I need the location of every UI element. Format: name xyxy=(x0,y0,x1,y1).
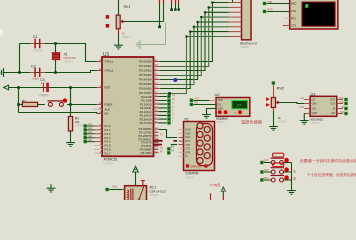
wire RP1 common drop xyxy=(232,0,234,3)
node junction X1 top xyxy=(54,42,57,45)
svg-text:加: 加 xyxy=(293,170,296,174)
svg-text:CLK: CLK xyxy=(339,101,344,104)
svg-text:DS18B20: DS18B20 xyxy=(216,116,228,120)
svg-text:LE1: LE1 xyxy=(88,123,93,126)
svg-text:DO: DO xyxy=(340,111,344,114)
push button K3 xyxy=(271,175,289,182)
svg-text:XTAL1: XTAL1 xyxy=(105,60,114,64)
svg-text:RX: RX xyxy=(171,146,175,149)
svg-text:<TEXT>: <TEXT> xyxy=(216,120,226,124)
svg-text:<TEXT>: <TEXT> xyxy=(104,162,115,166)
net labels P2 xyxy=(172,94,175,123)
wire P0.5 xyxy=(160,27,229,85)
DB9 shape xyxy=(197,124,213,166)
svg-text:U1: U1 xyxy=(103,52,110,58)
red pin bottom xyxy=(210,193,212,200)
pale ground wire xyxy=(144,23,166,45)
mcu U1 left pin stubs xyxy=(94,62,102,142)
terminal P1.2 xyxy=(84,132,87,135)
svg-text:RXD: RXD xyxy=(185,136,190,139)
svg-text:CTS: CTS xyxy=(291,25,296,28)
terminal K2 xyxy=(260,170,263,173)
wire U2 VDD xyxy=(193,100,209,102)
net labels U3 left xyxy=(299,97,304,109)
wire U2 DQ xyxy=(193,104,216,106)
terminal U3 DO xyxy=(344,112,347,115)
terminal U2 DQ xyxy=(190,103,193,106)
terminal U3 VCC xyxy=(344,98,347,101)
ground buttons xyxy=(287,187,296,195)
wire vertical x71 / resistor R1 xyxy=(70,88,72,117)
terminal P2.2 xyxy=(167,102,170,105)
svg-text:RI: RI xyxy=(185,155,188,158)
wire EA row xyxy=(19,113,97,114)
terminal K3 xyxy=(260,178,263,181)
U2 buttons xyxy=(218,110,222,114)
svg-text:XTAL2: XTAL2 xyxy=(105,69,114,73)
wire P3.0 to RXD xyxy=(159,130,178,138)
wire vertical B xyxy=(163,0,165,22)
svg-text:COMPIM: COMPIM xyxy=(185,172,198,176)
isolated ground xyxy=(47,184,56,192)
wire VT TXD xyxy=(267,11,290,13)
svg-text:VCC: VCC xyxy=(339,97,344,100)
svg-text:10k: 10k xyxy=(75,120,80,124)
svg-text:ADC0832: ADC0832 xyxy=(310,117,323,121)
terminal P2.4 xyxy=(167,110,170,113)
wire RV2 bottom xyxy=(273,108,275,123)
wire RV2 top xyxy=(273,85,275,97)
mcu U1 body xyxy=(102,52,154,166)
wire U2 GND xyxy=(207,109,217,111)
push button reset xyxy=(48,98,68,106)
crystal X1 xyxy=(52,44,77,73)
stub VT RTS xyxy=(284,17,290,19)
svg-text:1k: 1k xyxy=(278,116,282,120)
svg-text:RXD: RXD xyxy=(268,8,273,11)
wire U3 GND xyxy=(303,113,305,116)
svg-text:GND: GND xyxy=(312,112,318,115)
capacitor C3 xyxy=(39,78,50,97)
svg-text:LE4: LE4 xyxy=(88,135,93,138)
wire K2 xyxy=(264,171,292,173)
pot RV1 xyxy=(106,5,132,39)
svg-text:CH1: CH1 xyxy=(299,106,304,109)
terminal P2.1 xyxy=(167,99,170,102)
svg-text:设置键(一分钟内无操作自动退出设置界面): 设置键(一分钟内无操作自动退出设置界面) xyxy=(300,158,356,163)
wire P0.7 xyxy=(160,37,229,94)
terminal P1.0 xyxy=(84,124,87,127)
wire selected bold red xyxy=(154,140,178,142)
net labels P1 xyxy=(88,123,93,142)
svg-text:+: + xyxy=(41,82,43,86)
svg-text:27: 27 xyxy=(237,103,241,108)
push button K2 xyxy=(271,163,289,174)
svg-text:TXD: TXD xyxy=(185,144,190,147)
svg-text:<TEXT>: <TEXT> xyxy=(75,124,85,128)
svg-text:RV2: RV2 xyxy=(277,87,284,91)
svg-text:RESPACK-8: RESPACK-8 xyxy=(240,41,257,45)
wire P0.4 xyxy=(160,22,229,80)
svg-text:DEC: DEC xyxy=(264,177,269,180)
svg-text:CH0: CH0 xyxy=(312,103,318,106)
svg-text:P1.7: P1.7 xyxy=(105,151,111,155)
wire RV1 bottom to ground xyxy=(118,29,120,34)
ground below RV1 xyxy=(114,41,123,49)
wire buttons bus xyxy=(291,163,293,187)
svg-text:DTR: DTR xyxy=(185,151,190,154)
node junction RST/vert18 xyxy=(17,86,20,89)
LCD display xyxy=(232,101,248,109)
node junction X1 bottom xyxy=(54,71,57,74)
terminal P1.4 xyxy=(84,140,87,143)
wire P0.0 xyxy=(160,3,229,62)
terminal RXD xyxy=(263,10,266,13)
resistor R2 xyxy=(22,94,50,107)
svg-text:<TEXT>: <TEXT> xyxy=(122,35,132,39)
svg-text:RXD: RXD xyxy=(291,3,296,6)
node P0.7 mark xyxy=(168,92,171,95)
svg-text:EA: EA xyxy=(105,112,109,116)
resistor pack RP1 xyxy=(229,0,258,49)
wire PSEN row xyxy=(19,104,97,106)
terminal spare xyxy=(167,151,170,154)
net labels U3 right xyxy=(339,97,344,114)
terminal U3 CLK xyxy=(344,102,347,105)
wires P2 rows xyxy=(159,97,167,123)
svg-text:DO: DO xyxy=(332,112,336,115)
terminal RV2 top xyxy=(272,81,275,84)
terminal TXD xyxy=(263,2,266,5)
svg-text:P2.7/A15: P2.7/A15 xyxy=(140,121,152,125)
svg-text:RTS: RTS xyxy=(291,17,296,20)
mcu U1 right pin stubs xyxy=(154,62,161,153)
node junction C2 row xyxy=(18,71,21,74)
svg-text:<TEXT>: <TEXT> xyxy=(150,193,160,197)
svg-text:CTS: CTS xyxy=(185,148,190,151)
wire XTAL2/gnd row xyxy=(7,71,97,73)
wire P0.1 xyxy=(160,7,229,66)
wire RV2 wiper to U3 xyxy=(280,103,305,104)
svg-text:DQ: DQ xyxy=(218,103,222,106)
wire vertical C (dot end) xyxy=(171,0,173,10)
svg-text:<TEXT>: <TEXT> xyxy=(278,119,288,123)
COMPIM P1 xyxy=(179,117,227,179)
svg-text:P0.0/AD0: P0.0/AD0 xyxy=(139,60,152,64)
svg-text:<TEXT>: <TEXT> xyxy=(33,49,44,53)
svg-text:C1: C1 xyxy=(33,35,38,39)
svg-text:<TEXT>: <TEXT> xyxy=(240,45,250,49)
svg-text:PSEN: PSEN xyxy=(105,103,113,107)
ground below R1 xyxy=(66,139,75,147)
svg-text:ADD: ADD xyxy=(264,169,269,172)
terminal P1.3 xyxy=(84,136,87,139)
svg-text:DI: DI xyxy=(342,106,345,109)
svg-text:P0.3/AD3: P0.3/AD3 xyxy=(139,73,152,77)
wire vertical A xyxy=(159,0,161,27)
ground RV2 xyxy=(269,123,278,131)
mcu U1 unconnected left stubs xyxy=(93,109,102,153)
pot RV2 xyxy=(266,87,288,124)
svg-text:<TEXT>: <TEXT> xyxy=(185,175,195,179)
svg-text:CS: CS xyxy=(301,97,305,100)
svg-text:P3.7/RD: P3.7/RD xyxy=(141,151,152,155)
wire R1 to ground xyxy=(70,131,72,139)
svg-text:DSR: DSR xyxy=(185,132,190,135)
mcu U1 right pin labels xyxy=(138,60,151,155)
svg-text:P0.6/AD6: P0.6/AD6 xyxy=(139,87,152,91)
sensor U2 DS18B20 xyxy=(215,92,250,124)
relay RL1 xyxy=(125,181,167,201)
wire power to relay xyxy=(135,172,137,186)
svg-text:P0.1/AD1: P0.1/AD1 xyxy=(139,64,152,68)
wire vertical x18.8 xyxy=(18,88,20,113)
node junction PSEN/vert71 xyxy=(69,103,72,106)
terminal P2.3 xyxy=(167,106,170,109)
terminal TXD2 xyxy=(167,147,170,150)
wire left vertical xyxy=(19,44,21,73)
net labels P3 xyxy=(160,133,163,153)
wire XTAL1 net xyxy=(20,44,97,62)
wire vertical P2.0 riser xyxy=(175,0,177,10)
svg-text:RTS: RTS xyxy=(185,140,190,143)
wires P1.0-P1.4 xyxy=(87,126,95,142)
svg-text:5 V电源: 5 V电源 xyxy=(210,182,221,187)
svg-text:G2R-14-DC5: G2R-14-DC5 xyxy=(150,190,167,194)
svg-text:CH1: CH1 xyxy=(312,108,318,111)
wire P0.2 xyxy=(160,12,229,70)
power arrow 2 xyxy=(221,187,225,192)
svg-text:P0.4/AD4: P0.4/AD4 xyxy=(139,78,152,82)
stub VT CTS xyxy=(283,25,290,27)
terminal P2.6 xyxy=(167,117,170,120)
terminal relay xyxy=(105,188,108,191)
svg-text:<TEXT>: <TEXT> xyxy=(310,121,320,125)
svg-text:JDQ: JDQ xyxy=(112,186,117,189)
terminal arrow RST row xyxy=(4,85,9,90)
svg-text:TXD: TXD xyxy=(268,1,273,4)
wire P0.6 xyxy=(160,32,229,89)
terminal U2 VDD xyxy=(190,99,193,102)
virtual terminal VT1 xyxy=(290,0,338,29)
terminal P2.7 xyxy=(167,121,170,124)
pale ground symbol xyxy=(136,40,144,49)
svg-text:VDD: VDD xyxy=(218,99,223,102)
wire vertical P2.1 riser xyxy=(178,0,180,10)
terminal U3 DI xyxy=(344,107,347,110)
svg-text:RST: RST xyxy=(105,85,111,89)
svg-text:<TEXT>: <TEXT> xyxy=(39,94,50,98)
svg-text:ERROR: ERROR xyxy=(191,164,201,168)
node junction RST/vert71 xyxy=(69,86,72,89)
svg-text:VCC: VCC xyxy=(195,98,200,101)
svg-text:TXD: TXD xyxy=(291,10,296,13)
left edge paper mark xyxy=(0,29,3,35)
terminal P2.0 xyxy=(167,95,170,98)
svg-text:CLK: CLK xyxy=(330,103,335,106)
svg-text:个十百位选择键，设定好后按确认键: 个十百位选择键，设定好后按确认键 xyxy=(307,172,356,177)
wire K1 xyxy=(264,162,292,164)
push button K1 xyxy=(271,153,289,164)
wire VT RXD xyxy=(267,3,290,5)
svg-text:DI: DI xyxy=(333,108,336,111)
power arrow relay xyxy=(133,166,139,172)
svg-text:P0.2/AD2: P0.2/AD2 xyxy=(139,69,152,73)
ground left (sideways) xyxy=(0,68,8,77)
mcu U1 left pin labels xyxy=(105,60,114,156)
svg-text:CS: CS xyxy=(312,99,316,102)
svg-text:温度传感器: 温度传感器 xyxy=(241,118,263,125)
svg-text:DQ: DQ xyxy=(195,102,199,105)
svg-text:VCC: VCC xyxy=(330,99,335,102)
svg-text:RV1: RV1 xyxy=(124,5,131,9)
mcu U1 pin numbers xyxy=(99,60,102,154)
terminal P1.1 xyxy=(84,128,87,131)
wire P0.3 xyxy=(160,17,229,75)
svg-text:LE2: LE2 xyxy=(88,127,93,130)
svg-text:减: 减 xyxy=(293,177,296,181)
wire terminal to TXD xyxy=(171,144,177,146)
capacitor C1 xyxy=(30,35,45,52)
svg-text:+/-: +/- xyxy=(234,110,237,114)
node dots staircase xyxy=(185,1,213,37)
wire RV1 wiper to vertical B xyxy=(125,21,164,23)
terminal P2.5 xyxy=(167,114,170,117)
wire relay coil input xyxy=(109,189,122,191)
svg-text:TX: TX xyxy=(171,150,174,153)
ground U3 xyxy=(300,117,309,125)
svg-text:P0.5/AD5: P0.5/AD5 xyxy=(139,82,152,86)
svg-text:LE3: LE3 xyxy=(88,131,93,134)
wire RST row xyxy=(9,87,97,89)
terminal K1 xyxy=(260,161,263,164)
resistor R1 xyxy=(68,117,85,132)
svg-text:30pF: 30pF xyxy=(33,76,40,80)
ground U2 xyxy=(202,111,211,119)
capacitor C2 xyxy=(30,65,45,81)
blue marker dot xyxy=(173,78,177,82)
wire K3 xyxy=(264,179,292,181)
svg-text:U2: U2 xyxy=(215,92,221,97)
svg-text:<TEXT>: <TEXT> xyxy=(64,59,74,63)
svg-text:GND: GND xyxy=(218,108,224,111)
svg-text:SET: SET xyxy=(264,160,269,163)
svg-text:LE5: LE5 xyxy=(88,139,93,142)
wire RV1 top xyxy=(118,0,120,15)
svg-text:DCD: DCD xyxy=(185,129,190,132)
chip U3 ADC0832 xyxy=(304,92,343,125)
node junction PSEN/vert18 xyxy=(17,103,20,106)
